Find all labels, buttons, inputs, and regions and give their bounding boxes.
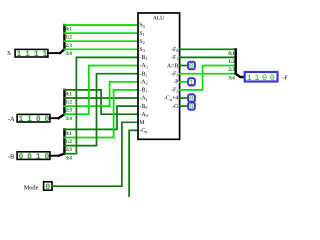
- splitter S leg label 3:4: [65, 51, 72, 57]
- svg-text:1:2: 1:2: [65, 100, 72, 106]
- bus wire A: [50, 117, 59, 119]
- ALU chip U1 (74181): [138, 13, 180, 139]
- svg-text:-B1: -B1: [139, 88, 147, 94]
- svg-text:0: 0: [44, 153, 49, 162]
- splitter B leg label 2:3: [65, 147, 72, 153]
- svg-text:-F: -F: [282, 74, 288, 81]
- svg-text:1: 1: [18, 115, 23, 124]
- svg-text:0: 0: [189, 104, 193, 112]
- svg-text:S0: S0: [139, 23, 144, 29]
- output pin label -F: [282, 74, 288, 81]
- svg-text:-F0: -F0: [171, 47, 178, 53]
- svg-text:3:4: 3:4: [65, 155, 72, 161]
- input pin -A (4-bit value 1100): [8, 116, 15, 123]
- wire B3 (0): [64, 57, 138, 153]
- svg-text:-G: -G: [172, 104, 179, 110]
- wire A3 (1): [64, 66, 138, 115]
- wire A2 (1): [64, 82, 138, 106]
- svg-text:-B: -B: [8, 153, 14, 160]
- ALU pin label -A2: [139, 80, 147, 86]
- svg-text:0: 0: [262, 74, 267, 83]
- svg-text:2:3: 2:3: [65, 147, 72, 153]
- ALU pin label -Cn+4: [164, 96, 178, 102]
- svg-text:0: 0: [189, 63, 193, 71]
- svg-text:S3: S3: [139, 47, 144, 53]
- svg-text:S1: S1: [139, 31, 144, 37]
- svg-text:A=B: A=B: [167, 63, 179, 69]
- wire -G stub (0): [180, 105, 188, 107]
- svg-text:1: 1: [254, 74, 259, 83]
- svg-text:1: 1: [42, 50, 47, 59]
- svg-text:-B2: -B2: [139, 71, 147, 77]
- svg-text:-Cn+4: -Cn+4: [164, 96, 178, 102]
- splitter B leg label 1:2: [65, 139, 72, 145]
- svg-text:-A1: -A1: [139, 96, 147, 102]
- probe -P value 1: [188, 78, 195, 87]
- splitter F leg label 0:1: [228, 51, 235, 57]
- svg-text:0: 0: [18, 153, 23, 162]
- svg-text:1: 1: [34, 50, 39, 59]
- splitter B leg label 3:4: [65, 155, 72, 161]
- svg-text:2:3: 2:3: [65, 108, 72, 114]
- ALU pin label -P: [173, 80, 179, 86]
- ALU pin label -B1: [139, 88, 147, 94]
- wire B0 (0): [64, 106, 138, 129]
- svg-text:1:2: 1:2: [65, 139, 72, 145]
- svg-text:-A2: -A2: [139, 80, 147, 86]
- wire A1 (0): [64, 97, 138, 99]
- svg-text:-P: -P: [173, 80, 179, 86]
- input box S=1111: [15, 49, 48, 59]
- wire B2 (0): [64, 74, 138, 146]
- splitter A leg label 1:2: [65, 100, 72, 106]
- svg-text:1:2: 1:2: [228, 59, 235, 65]
- ALU pin label -B2: [139, 71, 147, 77]
- wire S2 (1): [64, 40, 138, 42]
- wire -F3 (1): [180, 73, 236, 75]
- splitter B leg label 0:1: [65, 131, 72, 137]
- svg-text:-A: -A: [8, 116, 15, 123]
- wire A=B stub (0): [180, 65, 188, 67]
- splitter F leg label 1:2: [228, 59, 235, 65]
- ALU pin label -F1: [171, 55, 178, 61]
- svg-text:1: 1: [25, 50, 30, 59]
- input pin S (4-bit value 1111): [7, 50, 11, 57]
- svg-text:-F2: -F2: [171, 88, 178, 94]
- input pin -B (0010): [8, 153, 14, 160]
- input pin Mode (value 0): [24, 184, 39, 191]
- splitter B 4-bit: [59, 129, 65, 155]
- svg-text:3:4: 3:4: [228, 75, 235, 81]
- svg-text:0: 0: [45, 183, 50, 192]
- svg-text:-A0: -A0: [139, 112, 147, 118]
- wire S1 (1): [64, 32, 138, 34]
- splitter S leg label 1:2: [65, 35, 72, 41]
- svg-text:-A3: -A3: [139, 63, 147, 69]
- wire M (0): [52, 122, 138, 186]
- svg-text:0: 0: [36, 115, 41, 124]
- splitter F leg label 2:3: [228, 67, 235, 73]
- svg-text:0:1: 0:1: [65, 27, 72, 33]
- bus wire S: [48, 52, 60, 54]
- probe A=B value 0: [188, 62, 195, 71]
- wire -F0 (0): [180, 48, 236, 50]
- splitter F leg label 3:4: [228, 75, 235, 81]
- ALU pin label -F2: [171, 88, 178, 94]
- svg-text:3:4: 3:4: [65, 116, 72, 122]
- svg-text:1: 1: [36, 153, 41, 162]
- ALU pin label -F3: [171, 71, 178, 77]
- wire -P stub (1): [180, 81, 188, 83]
- ALU pin label -G: [172, 104, 179, 110]
- wire -Cn (0): [129, 130, 138, 197]
- input box A=1100: [17, 114, 50, 124]
- wire S0 (1): [64, 24, 138, 26]
- wire B1 (1): [64, 90, 138, 138]
- svg-text:0:1: 0:1: [228, 51, 235, 57]
- svg-text:1:2: 1:2: [65, 35, 72, 41]
- input box Mode=0: [44, 182, 52, 192]
- wire S3 (1): [64, 48, 138, 50]
- splitter A leg label 3:4: [65, 116, 72, 122]
- ALU pin label -A1: [139, 96, 147, 102]
- svg-text:Mode: Mode: [24, 184, 39, 191]
- ALU pin label S1: [139, 31, 144, 37]
- wire -Cn+4 stub (0): [180, 97, 188, 99]
- ALU pin label -A0: [139, 112, 147, 118]
- svg-text:2:3: 2:3: [65, 43, 72, 49]
- ALU pin label A=B: [167, 63, 179, 69]
- splitter A leg label 0:1: [65, 92, 72, 98]
- svg-text:M: M: [139, 120, 145, 126]
- bus wire B: [50, 155, 59, 157]
- svg-text:-Cn: -Cn: [139, 128, 148, 134]
- ALU pin label M: [139, 120, 145, 126]
- svg-text:1: 1: [247, 74, 252, 83]
- splitter A leg label 2:3: [65, 108, 72, 114]
- ALU pin label -B3: [139, 55, 147, 61]
- probe -G value 0: [188, 102, 195, 111]
- splitter A 4-bit: [59, 90, 65, 118]
- svg-text:2:3: 2:3: [228, 67, 235, 73]
- svg-text:1: 1: [27, 115, 32, 124]
- svg-text:1: 1: [16, 50, 21, 59]
- svg-text:0: 0: [44, 115, 49, 124]
- probe -Cn+4 value 0: [188, 94, 195, 103]
- output box F=1100: [245, 72, 278, 83]
- svg-text:-F1: -F1: [171, 55, 178, 61]
- svg-text:-B0: -B0: [139, 104, 147, 110]
- wire A0 (0): [64, 90, 138, 114]
- svg-text:0:1: 0:1: [65, 92, 72, 98]
- svg-text:-F3: -F3: [171, 71, 178, 77]
- wire -F1 (0): [180, 56, 236, 58]
- ALU pin label -A3: [139, 63, 147, 69]
- svg-text:1: 1: [189, 79, 194, 87]
- splitter S leg label 0:1: [65, 27, 72, 33]
- svg-text:3:4: 3:4: [65, 51, 72, 57]
- svg-text:S2: S2: [139, 39, 144, 45]
- wire -F2 (1): [180, 66, 236, 90]
- splitter S 4-bit: [60, 25, 64, 53]
- splitter F 4-bit: [236, 49, 244, 77]
- svg-text:0:1: 0:1: [65, 131, 72, 137]
- svg-text:S: S: [7, 50, 11, 57]
- ALU pin label S3: [139, 47, 144, 53]
- ALU pin label S0: [139, 23, 144, 29]
- svg-text:0: 0: [27, 153, 32, 162]
- ALU pin label -F0: [171, 47, 178, 53]
- splitter S leg label 2:3: [65, 43, 72, 49]
- ALU pin label -Cn: [139, 128, 148, 134]
- ALU pin label -B0: [139, 104, 147, 110]
- ALU pin label S2: [139, 39, 144, 45]
- input box B=0010: [17, 152, 50, 162]
- svg-text:-B3: -B3: [139, 55, 147, 61]
- svg-text:ALU: ALU: [153, 15, 164, 21]
- svg-text:0: 0: [270, 74, 275, 83]
